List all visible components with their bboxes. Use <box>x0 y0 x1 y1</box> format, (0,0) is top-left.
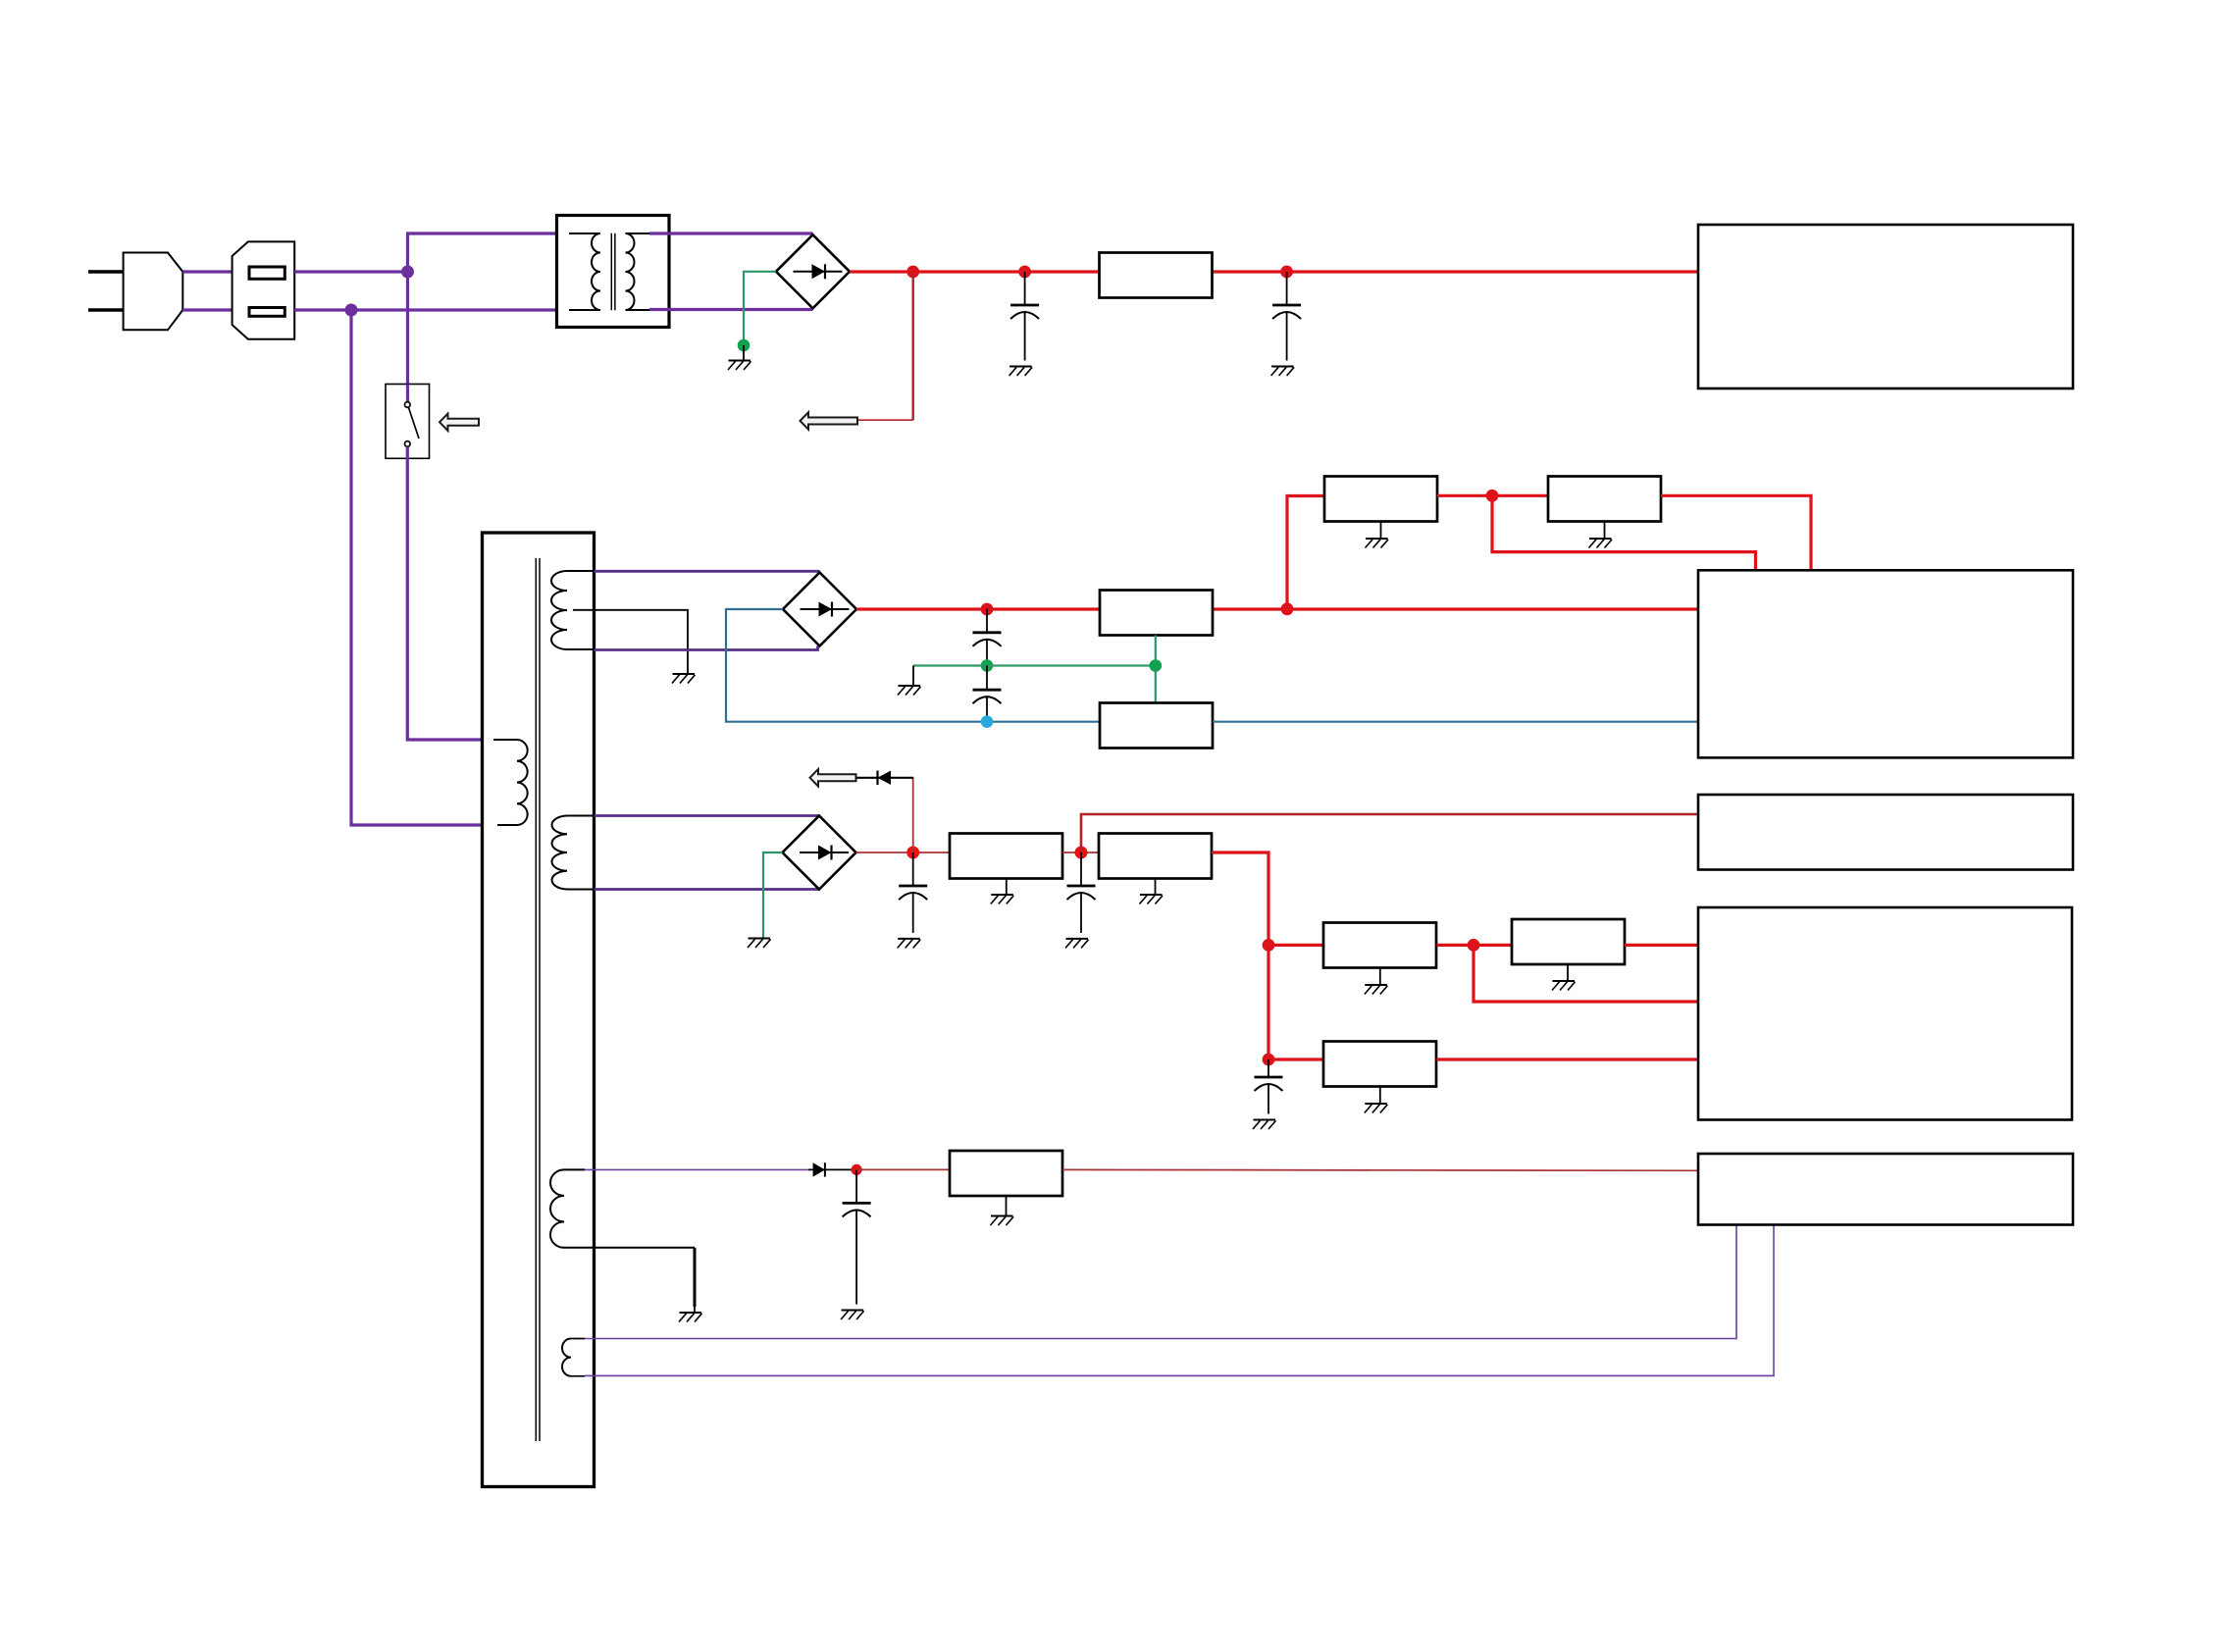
capacitor C2 <box>1272 272 1301 361</box>
junction R1b <box>1018 266 1031 279</box>
wire green node to ground <box>912 666 914 687</box>
wire junction A up to T1 primary top <box>408 233 570 272</box>
regulator U4 <box>1324 477 1437 522</box>
bridge rectifier B3 <box>783 816 856 890</box>
wire U9 to block BD3 <box>1625 944 1698 947</box>
regulator U2 <box>1100 591 1213 636</box>
wire outlet to junction A (line) <box>294 270 407 273</box>
blue rail to block BD2 <box>1213 721 1698 723</box>
junction R3e <box>1263 1054 1275 1066</box>
wire plug to outlet (top) <box>182 270 232 273</box>
capacitor C1 <box>1010 272 1039 361</box>
wire U5 to block BD2 top <box>1661 495 1811 570</box>
regulator U11 <box>950 1151 1062 1196</box>
junction R4a <box>852 1164 862 1175</box>
wire plug to outlet (bottom) <box>182 308 232 311</box>
U7 ground stub <box>1155 878 1157 895</box>
blue rail (-V) from B2 <box>726 609 1100 722</box>
AC outlet J1 <box>233 241 295 338</box>
block BD5 (load 5) <box>1698 1154 2073 1225</box>
wire junction R2c to block BD2 top <box>1492 495 1756 570</box>
junction R3c <box>1263 939 1275 952</box>
regulator U7 <box>1099 834 1212 879</box>
wire node G1 to ground <box>743 345 745 361</box>
ground (C5) <box>898 939 921 949</box>
capacitor C3 <box>973 609 1002 661</box>
regulator U8 <box>1323 923 1436 968</box>
ground (mid-rail) <box>898 686 921 696</box>
green node G3 <box>1150 659 1163 672</box>
T2 secondary S4 stubs <box>571 1339 585 1376</box>
wire rail1 down to off-page arrow <box>912 272 914 420</box>
capacitor C8 <box>843 1169 871 1304</box>
S1 center tap <box>573 610 688 674</box>
wire S2 top to bridge B3 <box>595 814 820 817</box>
bridge rectifier B1 <box>776 234 850 308</box>
green mid-rail wire <box>913 664 1156 666</box>
junction R3d <box>1468 939 1480 952</box>
wire outlet to transformer T1 (neutral) <box>294 308 579 311</box>
U6 ground stub <box>1006 878 1008 895</box>
wire to off-page arrow (horizontal) <box>857 419 913 421</box>
ground (B3 return) <box>748 939 771 949</box>
ground (U4) <box>1366 539 1389 548</box>
red wire U7 down to lower branch <box>1212 852 1268 1059</box>
green node G2 <box>981 659 994 672</box>
wire U8 to U9 <box>1437 944 1513 947</box>
blue node <box>981 715 994 728</box>
block BD3 (load 3) <box>1698 795 2073 870</box>
capacitor C6 <box>1067 852 1096 933</box>
wire B3 negative to ground <box>763 852 783 939</box>
ground (S1 center tap) <box>672 674 696 684</box>
T2 secondary S2 coil <box>552 816 567 890</box>
T2 secondary S1 coil <box>551 571 567 649</box>
junction R1c <box>1280 266 1293 279</box>
capacitor C4 <box>973 666 1002 717</box>
ground (C7) <box>1253 1120 1276 1130</box>
U10 ground stub <box>1379 1087 1381 1105</box>
ground (C6) <box>1065 939 1089 949</box>
junction B <box>345 304 358 317</box>
wire switch to T2 primary top <box>407 447 493 741</box>
regulator U6 <box>950 834 1062 879</box>
ground (C2) <box>1271 367 1295 377</box>
wire T1 secondary bottom to bridge B1 <box>649 308 813 311</box>
junction R3b <box>1075 847 1088 859</box>
transformer T1 <box>557 216 670 328</box>
capacitor C7 <box>1255 1059 1283 1114</box>
wire S3 to diode D2 <box>585 1168 808 1170</box>
U11 ground stub <box>1006 1196 1008 1216</box>
transformer T2 <box>483 533 595 1487</box>
T2 secondary S1 stubs <box>567 571 595 649</box>
block BD4 (load 4) <box>1698 907 2072 1120</box>
junction R1a <box>906 266 919 279</box>
junction R2c <box>1486 490 1499 502</box>
ground (S3 return) <box>679 1313 702 1322</box>
block BD1 (load 1) <box>1698 225 2073 388</box>
wire junction B to T2 primary bottom <box>351 310 497 825</box>
junction R2a <box>981 603 994 616</box>
wire junction R3e to U10 <box>1268 1058 1323 1060</box>
wire junction R3a up to diode D1 <box>912 778 914 852</box>
ground (C8) <box>841 1311 864 1320</box>
off-page connector arrow 1 <box>801 412 858 429</box>
junction A <box>401 266 414 279</box>
capacitor C5 <box>899 852 927 933</box>
regulator U5 <box>1548 477 1661 522</box>
wire S4 top to block BD5 <box>585 1225 1736 1339</box>
long red wire to block BD3 <box>1081 814 1698 852</box>
bridge rectifier B2 <box>783 573 856 646</box>
green wire U2 to U3 <box>1155 636 1157 703</box>
red rail 2 <box>856 607 1698 610</box>
switch actuator arrow <box>440 414 479 431</box>
ground (C1) <box>1009 367 1033 377</box>
T2 secondary S4 coil <box>562 1339 571 1376</box>
T2 secondary S3 coil <box>550 1169 564 1247</box>
off-page connector arrow 2 <box>810 769 856 786</box>
red rail 3 segment b <box>1062 852 1099 853</box>
T2 secondary S2 stubs <box>567 816 595 890</box>
junction R2b <box>1281 602 1294 615</box>
wire junction R3d to block BD3 <box>1474 945 1698 1002</box>
AC plug P1 <box>88 253 182 331</box>
S3 bottom return to ground <box>694 1248 697 1307</box>
ground (U5) <box>1589 539 1613 548</box>
regulator U3 <box>1100 703 1213 749</box>
junction R3a <box>906 847 919 859</box>
wire diode D2 to U11 <box>856 1168 950 1170</box>
wire U11 to block BD5 <box>1062 1168 1698 1171</box>
ground (U11) <box>991 1216 1014 1226</box>
diode D2 <box>808 1162 856 1176</box>
U8 ground stub <box>1379 968 1381 986</box>
wire S1 top to bridge B2 <box>595 570 820 573</box>
U9 ground stub <box>1567 964 1569 981</box>
wire junction R3c to U8 <box>1268 944 1323 947</box>
wire S4 bottom to block BD5 <box>585 1225 1774 1376</box>
ground (U6) <box>991 895 1014 904</box>
wire junction R2b up to U4 <box>1287 496 1324 609</box>
ground (U8) <box>1365 985 1388 995</box>
ground (U7) <box>1140 895 1164 904</box>
block BD2 (load 2) <box>1698 570 2073 757</box>
regulator U9 <box>1512 919 1625 964</box>
regulator U1 <box>1100 253 1213 298</box>
regulator U10 <box>1323 1042 1436 1087</box>
switch SW1 <box>386 385 430 459</box>
wire junction A down to switch <box>406 272 409 385</box>
diode D1 <box>856 771 914 786</box>
wire T1 secondary top to bridge B1 <box>649 232 813 234</box>
red rail 3 segment a <box>856 852 951 853</box>
red rail 1 (+V unregulated) <box>850 270 1698 273</box>
T2 primary coil <box>517 740 528 825</box>
wire U10 to block BD3 <box>1437 1058 1699 1060</box>
U4 ground stub <box>1380 522 1382 540</box>
wire S2 bottom to bridge B3 <box>595 888 820 891</box>
ground (U9) <box>1552 981 1576 991</box>
ground (U10) <box>1365 1104 1388 1113</box>
T2 secondary S3 stubs <box>564 1169 695 1247</box>
U5 ground stub <box>1604 522 1606 540</box>
T2 primary winding <box>493 740 517 825</box>
wire B1 negative to ground node <box>744 272 776 345</box>
ground (B1 return) <box>728 361 751 371</box>
wire U4 to U5 <box>1437 494 1548 497</box>
green node G1 <box>738 339 750 352</box>
wire S1 bottom to bridge B2 <box>595 646 818 650</box>
